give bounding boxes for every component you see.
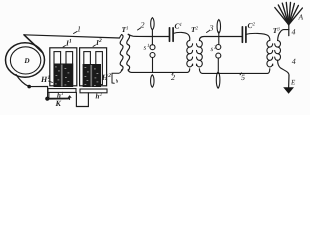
wire junction to key	[29, 87, 47, 99]
spark gap S2	[216, 20, 221, 89]
label T1	[122, 25, 129, 34]
wire top main (node 1)	[24, 35, 120, 38]
svg-text:1: 1	[69, 39, 72, 45]
label 3 top	[207, 24, 214, 33]
svg-text:1: 1	[77, 25, 81, 34]
wire C1 to T2	[173, 32, 190, 40]
base plate h2	[80, 89, 107, 93]
wire base h1 to base h2 under key	[76, 92, 88, 106]
svg-text:1: 1	[61, 91, 64, 97]
wire T3 top-right to antenna	[278, 30, 289, 41]
node junction dot	[27, 85, 31, 89]
transformer T2	[187, 41, 203, 67]
induction coil I1	[50, 48, 77, 86]
transformer T1	[120, 34, 130, 71]
svg-text:D: D	[23, 57, 30, 65]
svg-text:K: K	[55, 99, 62, 108]
svg-text:1: 1	[147, 43, 150, 49]
label T2	[191, 25, 199, 34]
label 2 bottom	[171, 73, 175, 83]
wire T3 bottom-right to earth	[278, 60, 289, 75]
winding block of I1	[54, 64, 74, 88]
capacitor C1	[170, 28, 174, 42]
spark gap S1	[150, 18, 155, 88]
wire antenna stem	[288, 24, 290, 35]
wire C2 to T3	[246, 33, 270, 40]
wire dynamo to top wire	[24, 35, 43, 53]
svg-text:1: 1	[48, 75, 51, 81]
label S2	[211, 45, 218, 54]
label 2 top	[138, 21, 145, 31]
winding block of I2	[83, 64, 101, 87]
label h2	[96, 92, 103, 101]
wire T1 top-right to C1	[128, 34, 169, 36]
label H1	[40, 75, 53, 84]
svg-text:5: 5	[241, 73, 245, 82]
earth E	[283, 75, 294, 94]
label I1	[63, 39, 72, 48]
svg-text:2: 2	[98, 38, 102, 44]
base plate h1	[48, 89, 76, 93]
wire bottom rail T2 to T3 (circuit 5)	[199, 69, 269, 74]
wire bottom rail T1 to T2 (circuit 2)	[128, 69, 190, 73]
transformer T3	[267, 41, 281, 67]
svg-text:4: 4	[292, 28, 296, 37]
svg-text:4: 4	[292, 57, 296, 66]
label h1	[57, 91, 64, 100]
svg-text:1: 1	[126, 25, 129, 31]
label H2	[101, 73, 111, 82]
label 5 bottom	[240, 73, 245, 82]
dynamo D	[6, 43, 45, 78]
label C1	[175, 22, 183, 31]
svg-text:2: 2	[141, 21, 145, 30]
wire dynamo bottom to junction	[16, 75, 29, 87]
label C2	[248, 21, 256, 30]
label 1	[74, 25, 82, 34]
telegraph key K	[45, 96, 71, 101]
wire T1 bottom-left to coil I2	[112, 70, 122, 84]
label I2	[93, 38, 102, 47]
wire T2 top-right to S2 and C2	[199, 37, 242, 41]
svg-text:A: A	[298, 13, 304, 22]
antenna convergence	[285, 19, 292, 24]
label T3	[273, 26, 281, 35]
svg-text:2: 2	[107, 73, 111, 79]
antenna A	[275, 2, 303, 24]
label s1	[144, 43, 150, 52]
svg-text:E: E	[290, 79, 296, 87]
svg-text:1: 1	[180, 22, 183, 28]
induction coil I2	[80, 48, 107, 86]
capacitor C2	[242, 27, 246, 43]
